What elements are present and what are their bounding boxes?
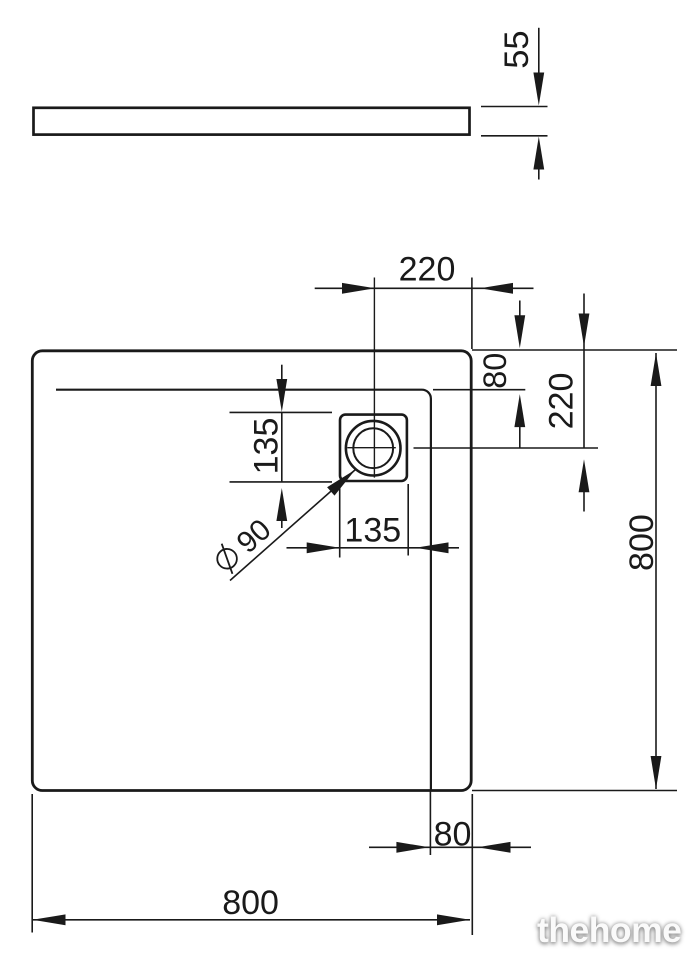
dimension line 80 top upper bbox=[519, 301, 521, 319]
extension line 135 bottom left bbox=[339, 484, 341, 558]
inner rim line bbox=[56, 390, 431, 791]
dimension line 55 lower bbox=[538, 167, 540, 180]
arrow 800 bottom left bbox=[33, 914, 66, 925]
dimension line 135 bottom bbox=[287, 547, 460, 549]
dimension line 800 bottom bbox=[33, 919, 471, 921]
svg-text:220: 220 bbox=[399, 251, 456, 289]
svg-text:800: 800 bbox=[222, 884, 279, 922]
extension line side bottom bbox=[481, 135, 548, 137]
extension line 800 bottom left bbox=[31, 794, 33, 933]
arrow 135 left up bbox=[276, 488, 287, 521]
dimension line 80 top lower bbox=[519, 425, 521, 448]
arrow 80 top up bbox=[514, 394, 525, 427]
arrow 55 down bbox=[533, 73, 544, 106]
inner rim extension right bbox=[433, 389, 525, 391]
arrow 220 top left (points right) bbox=[342, 283, 375, 294]
dimension line 220 right lower bbox=[583, 490, 585, 512]
dimension line 135 left upper bbox=[281, 365, 283, 380]
svg-text:135: 135 bbox=[248, 418, 286, 475]
drain inner circle bbox=[353, 428, 393, 468]
arrow 220 right up bbox=[579, 459, 590, 492]
diameter symbol slash bbox=[213, 544, 242, 574]
arrow 135 bottom left (points right) bbox=[307, 542, 340, 553]
diameter symbol and 90 label bbox=[210, 513, 278, 579]
arrow 55 up bbox=[533, 137, 544, 170]
drain outer circle bbox=[346, 421, 401, 476]
extension line 135 bottom right bbox=[407, 484, 409, 556]
arrow 135 bottom right (points left) bbox=[416, 542, 449, 553]
drain centerline extension right bbox=[414, 447, 599, 449]
svg-text:220: 220 bbox=[543, 373, 581, 430]
svg-text:135: 135 bbox=[344, 512, 401, 550]
dimension line 135 left lower bbox=[281, 519, 283, 528]
svg-text:90: 90 bbox=[231, 513, 278, 560]
arrow 220 top right (points left) bbox=[480, 283, 513, 294]
svg-text:55: 55 bbox=[498, 30, 536, 68]
dimension line 220 right bbox=[583, 294, 585, 449]
arrow 220 right down bbox=[579, 314, 590, 347]
extension line top 220 right bbox=[471, 278, 473, 350]
dimension line 55 upper bbox=[538, 28, 540, 76]
arrow 80 bottom right (points left) bbox=[478, 842, 511, 853]
svg-text:80: 80 bbox=[477, 353, 513, 389]
diameter symbol circle bbox=[213, 545, 241, 573]
inner rim extension below tray bbox=[429, 791, 431, 856]
svg-text:80: 80 bbox=[434, 816, 472, 854]
extension line 800 bottom right bbox=[471, 794, 473, 935]
svg-text:800: 800 bbox=[623, 514, 661, 571]
leader arrowhead d90 bbox=[327, 470, 355, 496]
dimension line 220 top bbox=[315, 287, 534, 289]
watermark thehome bbox=[537, 910, 681, 951]
extension line side top bbox=[481, 106, 548, 108]
drain centerline vertical bbox=[373, 278, 375, 478]
extension line 135 left top bbox=[230, 411, 333, 413]
tray outline (top view) bbox=[32, 351, 471, 791]
dimension line 80 bottom bbox=[369, 846, 531, 848]
leader line d90 bbox=[230, 470, 356, 581]
arrow 800 bottom right bbox=[437, 914, 470, 925]
side view tray slab bbox=[34, 108, 470, 135]
extension line 135 left bottom bbox=[230, 481, 333, 483]
arrow 800 right down bbox=[651, 756, 662, 789]
arrow 135 left down bbox=[276, 379, 287, 412]
dimension line 800 right bbox=[655, 353, 657, 789]
tray top edge extension right bbox=[472, 349, 677, 351]
dimension line 135 left middle bbox=[281, 412, 283, 482]
drain flange square bbox=[340, 415, 407, 481]
arrow 800 right up bbox=[651, 353, 662, 386]
drain crosshair horizontal bbox=[347, 447, 396, 449]
tray bottom edge extension right bbox=[472, 790, 677, 792]
arrow 80 top down bbox=[514, 315, 525, 348]
arrow 80 bottom left (points right) bbox=[396, 842, 429, 853]
